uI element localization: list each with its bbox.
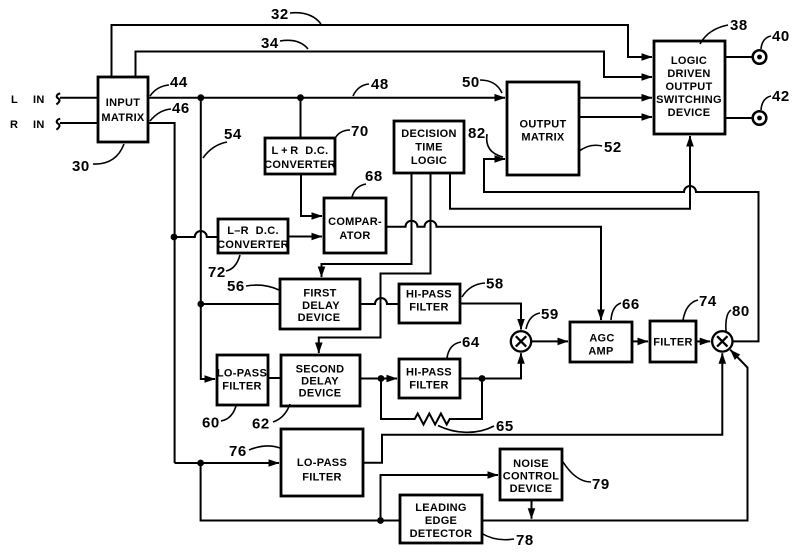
svg-text:64: 64 bbox=[462, 334, 480, 351]
wire multiplier 59 to AGC amp bbox=[531, 340, 568, 342]
svg-text:FIRST: FIRST bbox=[303, 288, 336, 300]
svg-text:EDGE: EDGE bbox=[425, 515, 457, 527]
svg-text:40: 40 bbox=[772, 28, 790, 45]
leading edge detector box 78 bbox=[400, 495, 482, 543]
filter box 74 bbox=[650, 321, 696, 362]
svg-text:AGC: AGC bbox=[589, 333, 614, 345]
wire branch into L-R converter with hop bbox=[174, 231, 218, 237]
wire filter to multiplier 80 bbox=[696, 340, 710, 342]
svg-text:CONTROL: CONTROL bbox=[503, 471, 559, 483]
svg-text:80: 80 bbox=[732, 303, 750, 320]
svg-text:MATRIX: MATRIX bbox=[521, 132, 565, 144]
hi-pass filter box 58 bbox=[399, 284, 460, 323]
svg-text:DELAY: DELAY bbox=[301, 376, 339, 388]
svg-text:54: 54 bbox=[224, 126, 242, 143]
svg-text:66: 66 bbox=[622, 296, 640, 313]
svg-text:38: 38 bbox=[730, 17, 748, 34]
svg-text:L–R D.C.: L–R D.C. bbox=[227, 225, 279, 237]
svg-text:DECISION: DECISION bbox=[401, 128, 457, 140]
junction dot bottom run bbox=[377, 517, 384, 524]
svg-text:DELAY: DELAY bbox=[302, 300, 340, 312]
wire output matrix out 2 bbox=[579, 116, 652, 118]
wire 32 top line bbox=[112, 25, 653, 77]
decision time logic box 82 bbox=[394, 121, 464, 173]
first delay device box 56 bbox=[280, 279, 360, 329]
svg-text:78: 78 bbox=[516, 532, 534, 549]
wire up into noise control device bbox=[381, 475, 499, 521]
wire lo-pass 60 to second delay bbox=[268, 377, 281, 379]
svg-text:30: 30 bbox=[72, 158, 90, 175]
svg-text:50: 50 bbox=[462, 74, 480, 91]
wire AGC amp to filter bbox=[632, 340, 648, 342]
wire multiplier 80 feedback to output matrix with hop bbox=[484, 159, 759, 341]
svg-text:R: R bbox=[10, 119, 18, 131]
input matrix box 30 bbox=[98, 77, 148, 142]
svg-text:FILTER: FILTER bbox=[222, 381, 261, 393]
comparator box 68 bbox=[324, 198, 386, 253]
lo-pass filter box 76 bbox=[281, 429, 363, 496]
svg-text:CONVERTER: CONVERTER bbox=[217, 239, 289, 251]
svg-text:60: 60 bbox=[202, 415, 220, 432]
svg-text:COMPAR-: COMPAR- bbox=[328, 216, 382, 228]
svg-text:72: 72 bbox=[208, 264, 226, 281]
svg-text:LOGIC: LOGIC bbox=[411, 155, 447, 167]
multiplier 80 bbox=[712, 331, 732, 351]
noise control device box 79 bbox=[500, 449, 562, 500]
svg-text:SECOND: SECOND bbox=[296, 364, 345, 376]
svg-text:IN: IN bbox=[33, 119, 45, 131]
lo-pass filter box 60 bbox=[217, 355, 268, 405]
svg-text:82: 82 bbox=[468, 125, 486, 142]
wire 34 second line bbox=[136, 52, 653, 78]
wire L+R converter to comparator bbox=[301, 174, 322, 216]
junction dot resistor left bbox=[378, 375, 385, 382]
junction dot on line 44 at 54 bbox=[197, 94, 204, 101]
wire noise control device down to line bbox=[531, 500, 533, 519]
wire switching device to terminal 42 bbox=[725, 117, 753, 119]
wire decision logic to second delay device bbox=[319, 173, 431, 353]
svg-text:MATRIX: MATRIX bbox=[101, 112, 145, 124]
wire hi-pass 58 to multiplier 59 bbox=[460, 304, 521, 330]
svg-text:79: 79 bbox=[592, 476, 610, 493]
svg-text:32: 32 bbox=[271, 6, 289, 23]
svg-text:FILTER: FILTER bbox=[653, 337, 692, 349]
L+R D.C. converter box 70 bbox=[264, 138, 336, 174]
svg-text:NOISE: NOISE bbox=[513, 458, 549, 470]
svg-text:DEVICE: DEVICE bbox=[510, 483, 553, 495]
svg-text:68: 68 bbox=[365, 168, 383, 185]
wire L-R converter to comparator bbox=[288, 236, 322, 238]
svg-text:AMP: AMP bbox=[588, 346, 613, 358]
svg-text:34: 34 bbox=[261, 35, 279, 52]
svg-text:OUTPUT: OUTPUT bbox=[519, 119, 566, 131]
L input hook bbox=[56, 93, 60, 104]
junction dot resistor right bbox=[479, 375, 486, 382]
hi-pass filter box 64 bbox=[399, 359, 460, 398]
svg-text:48: 48 bbox=[371, 76, 389, 93]
logic driven output switching device box 38 bbox=[654, 41, 725, 134]
svg-text:LOGIC: LOGIC bbox=[671, 55, 707, 67]
svg-text:LEADING: LEADING bbox=[415, 502, 467, 514]
svg-text:OUTPUT: OUTPUT bbox=[665, 81, 712, 93]
svg-text:DETECTOR: DETECTOR bbox=[410, 528, 473, 540]
svg-text:LO-PASS: LO-PASS bbox=[217, 368, 267, 380]
wire hi-pass 64 to multiplier 59 bbox=[460, 353, 521, 378]
wire line 54 branch into first delay device bbox=[201, 303, 280, 305]
terminal 40 bbox=[753, 50, 767, 64]
AGC amp box 66 bbox=[570, 322, 632, 362]
wire decision logic to switching device bbox=[450, 136, 690, 209]
wire leading edge detector to multiplier 80 bbox=[482, 350, 748, 521]
svg-text:ATOR: ATOR bbox=[339, 230, 370, 242]
svg-text:LO-PASS: LO-PASS bbox=[297, 457, 347, 469]
svg-text:L + R D.C.: L + R D.C. bbox=[272, 145, 329, 157]
svg-text:44: 44 bbox=[170, 74, 188, 91]
wire bottom run to leading edge detector bbox=[201, 463, 400, 521]
svg-text:HI-PASS: HI-PASS bbox=[406, 367, 452, 379]
wire output matrix out 1 bbox=[579, 97, 652, 99]
svg-text:SWITCHING: SWITCHING bbox=[656, 94, 722, 106]
svg-text:CONVERTER: CONVERTER bbox=[264, 159, 336, 171]
svg-text:TIME: TIME bbox=[415, 142, 442, 154]
svg-text:74: 74 bbox=[699, 293, 717, 310]
svg-text:42: 42 bbox=[772, 88, 790, 105]
svg-text:58: 58 bbox=[486, 276, 504, 293]
svg-text:46: 46 bbox=[172, 100, 190, 117]
wire 44/48 main line to output matrix bbox=[148, 97, 505, 99]
svg-text:70: 70 bbox=[351, 123, 369, 140]
junction dot line 54 first delay feed bbox=[197, 301, 204, 308]
svg-text:FILTER: FILTER bbox=[409, 380, 448, 392]
wire decision logic to first delay device bbox=[322, 173, 412, 277]
terminal 42 bbox=[753, 111, 767, 125]
wire comparator output to AGC amp with hops bbox=[386, 221, 601, 320]
resistor 65 bbox=[381, 379, 482, 425]
multiplier 59 bbox=[511, 331, 531, 351]
wire lo-pass 76 to multiplier 80 bbox=[363, 353, 722, 462]
junction dot wire 46 branch bbox=[171, 234, 178, 241]
L-R D.C. converter box 72 bbox=[217, 219, 289, 253]
junction dot wire 46 at lo-pass 76 feed bbox=[197, 460, 204, 467]
svg-text:IN: IN bbox=[33, 94, 45, 106]
wire first delay to hi-pass 58 with hop bbox=[360, 298, 399, 304]
svg-text:L: L bbox=[11, 94, 18, 106]
svg-text:52: 52 bbox=[604, 139, 622, 156]
svg-text:65: 65 bbox=[496, 418, 514, 435]
wire 54 vertical into lo-pass filter 60 bbox=[201, 98, 215, 379]
wire 46 down the left side bbox=[148, 123, 175, 463]
svg-text:DEVICE: DEVICE bbox=[298, 312, 341, 324]
svg-text:DEVICE: DEVICE bbox=[299, 388, 342, 400]
wire second delay to hi-pass 64 bbox=[360, 378, 397, 380]
second delay device box 62 bbox=[281, 355, 360, 406]
svg-text:DEVICE: DEVICE bbox=[668, 107, 711, 119]
svg-text:76: 76 bbox=[229, 443, 247, 460]
wire into lo-pass filter 76 bbox=[175, 462, 279, 464]
wire switching device to terminal 40 bbox=[725, 56, 753, 58]
svg-text:DRIVEN: DRIVEN bbox=[667, 68, 710, 80]
svg-text:56: 56 bbox=[227, 278, 245, 295]
svg-text:59: 59 bbox=[541, 306, 559, 323]
wire L in bbox=[60, 97, 98, 99]
R input hook bbox=[56, 119, 60, 130]
svg-text:INPUT: INPUT bbox=[106, 97, 141, 109]
output matrix box 52 bbox=[507, 82, 579, 175]
junction dot on line 44 at L+R feed bbox=[297, 94, 304, 101]
svg-text:FILTER: FILTER bbox=[409, 302, 448, 314]
svg-text:FILTER: FILTER bbox=[302, 472, 341, 484]
svg-text:62: 62 bbox=[252, 416, 270, 433]
wire L+R converter top feed bbox=[300, 98, 302, 138]
svg-text:HI-PASS: HI-PASS bbox=[406, 289, 452, 301]
wire R in bbox=[60, 122, 98, 124]
